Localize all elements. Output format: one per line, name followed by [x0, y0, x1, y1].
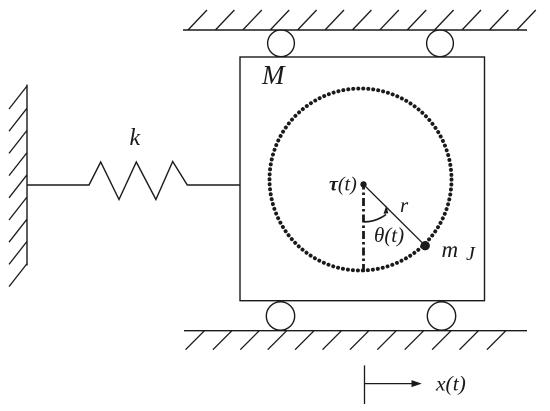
bottom roller right [427, 302, 455, 330]
wall hatching [9, 86, 27, 287]
x(t) arrow [365, 383, 414, 385]
svg-text:m: m [442, 237, 459, 262]
svg-text:M: M [261, 60, 286, 90]
svg-text:τ(t): τ(t) [329, 174, 357, 196]
dash-dot reference line [362, 182, 365, 273]
x(t) reference vertical line [364, 365, 366, 404]
ceiling line [183, 29, 527, 31]
x(t) arrowhead [412, 380, 422, 387]
left wall line [26, 85, 28, 266]
mass M box [240, 57, 485, 301]
svg-text:θ(t): θ(t) [374, 223, 404, 247]
center pivot dot [360, 181, 366, 187]
theta arrowhead [384, 205, 389, 214]
bottom roller left [266, 302, 294, 330]
svg-text:J: J [466, 243, 476, 265]
svg-text:x(t): x(t) [435, 372, 466, 396]
spring k [27, 162, 240, 200]
ground hatching [186, 331, 506, 350]
ceiling hatching [188, 10, 536, 30]
radius r line [364, 184, 426, 245]
dotted flywheel circle [270, 89, 452, 271]
ground line [184, 330, 527, 332]
top roller left [268, 30, 295, 57]
mass m dot [421, 241, 430, 250]
top roller right [427, 30, 454, 57]
theta arc arrow [364, 215, 386, 222]
svg-text:k: k [130, 125, 141, 151]
svg-text:r: r [400, 193, 409, 217]
